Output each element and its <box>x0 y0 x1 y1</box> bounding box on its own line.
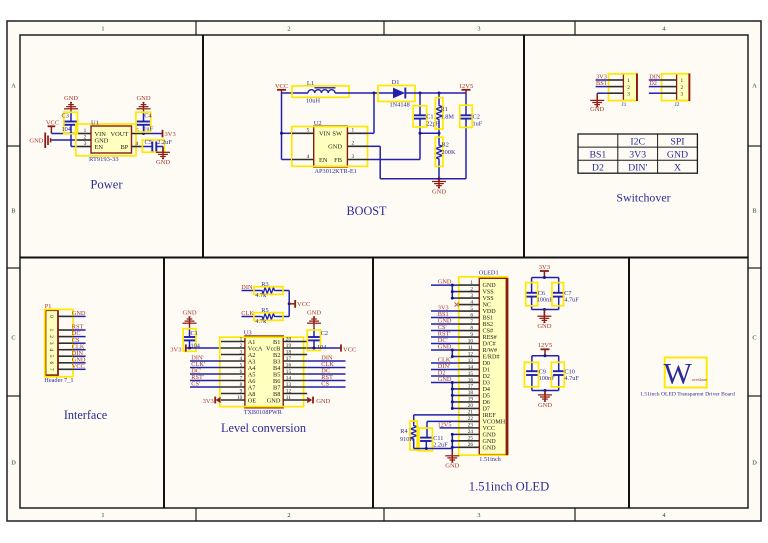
OLED1 pin 15 D2 <box>459 375 480 377</box>
OLED1 pin 23 VCC <box>459 427 480 429</box>
svg-text:X: X <box>674 163 681 174</box>
svg-text:2: 2 <box>240 343 243 349</box>
wire RST from U3 <box>307 380 345 382</box>
ground GND above C4 <box>143 103 145 114</box>
svg-text:VSS: VSS <box>483 296 495 302</box>
OLED1 pin 13 D0 <box>459 362 480 364</box>
op-amp U2 boost converter AP3012 <box>314 126 348 167</box>
svg-text:BS2: BS2 <box>483 322 494 328</box>
svg-text:20: 20 <box>468 403 474 409</box>
resistor R2 200K <box>438 133 440 143</box>
wire GND to OLED1 pin 1 <box>431 284 459 286</box>
capacitor C11 2.2uF <box>420 437 432 439</box>
ground GND below C6/C7 <box>543 312 545 323</box>
svg-text:12: 12 <box>468 351 474 357</box>
svg-text:RT9193-33: RT9193-33 <box>89 156 119 163</box>
svg-text:BS1: BS1 <box>596 80 607 87</box>
wire GND to OLED1 pin 11 <box>431 349 459 351</box>
OLED1 pin4 NC cross <box>455 303 459 307</box>
svg-text:1uF: 1uF <box>473 121 483 128</box>
svg-text:D/C#: D/C# <box>483 342 496 348</box>
svg-text:C4: C4 <box>144 113 152 120</box>
svg-text:3: 3 <box>470 293 473 299</box>
capacitor C10 4.7uF <box>558 356 560 371</box>
svg-text:5: 5 <box>48 355 54 358</box>
wire D2 to J2 pin2 <box>649 86 662 88</box>
svg-text:D: D <box>752 459 757 466</box>
OLED1 pin 26 GND <box>459 446 480 448</box>
wire VOUT to 3V3 <box>144 133 163 135</box>
OLED1 pin 2 VSS <box>459 291 480 293</box>
svg-text:Switchover: Switchover <box>616 190 670 204</box>
svg-text:VCC: VCC <box>46 119 59 126</box>
P1 pin 6 GND <box>58 362 72 364</box>
ground GND below C5 <box>162 148 164 159</box>
svg-text:VDD: VDD <box>483 309 497 315</box>
svg-text:0: 0 <box>48 315 54 318</box>
svg-text:7: 7 <box>48 368 54 371</box>
op-amp U1 regulator RT9193-33 <box>91 126 132 153</box>
wire L1 to D1 anode <box>335 92 393 94</box>
capacitor C7 4.7uF <box>558 278 560 293</box>
svg-text:12: 12 <box>286 389 292 395</box>
svg-text:SW: SW <box>332 131 343 138</box>
svg-text:GND: GND <box>72 310 86 317</box>
power port VCC (VccB) <box>340 344 342 351</box>
svg-text:4.7k: 4.7k <box>255 292 267 299</box>
OLED1 pin 18 D5 <box>459 394 480 396</box>
svg-text:C: C <box>11 334 15 341</box>
OLED1 pin 8 CS# <box>459 330 480 332</box>
svg-text:GND: GND <box>438 279 452 286</box>
svg-text:4.7k: 4.7k <box>255 318 267 325</box>
svg-text:GND: GND <box>64 95 78 102</box>
header J2 <box>677 74 690 101</box>
svg-text:9: 9 <box>240 389 243 395</box>
wire DIN' to OLED1 pin 14 <box>431 368 459 370</box>
svg-text:VCC: VCC <box>483 426 496 432</box>
wire U2 VIN rail <box>281 93 283 160</box>
svg-text:6: 6 <box>48 361 54 364</box>
OLED1 pin 4 NC <box>459 304 480 306</box>
logo Waveshare <box>665 358 707 388</box>
svg-text:21: 21 <box>468 410 474 416</box>
svg-text:C: C <box>752 334 756 341</box>
capacitor C6 100nF <box>531 278 533 293</box>
wire 12V5 to OLED1 VCC pin23 <box>440 427 459 429</box>
svg-text:D2: D2 <box>592 163 604 174</box>
wire 3V3 to J1 pin1 <box>596 79 609 81</box>
svg-text:W: W <box>664 357 693 390</box>
svg-text:BOOST: BOOST <box>347 204 388 218</box>
svg-text:2: 2 <box>351 141 354 147</box>
svg-text:GND: GND <box>438 344 452 351</box>
capacitor C9 100nF <box>531 356 533 371</box>
svg-text:14: 14 <box>286 376 292 382</box>
svg-text:OLED1: OLED1 <box>479 270 499 277</box>
wire C5 to ground <box>156 146 163 148</box>
diode D1 1N4148 <box>378 86 415 102</box>
svg-text:2: 2 <box>48 335 54 338</box>
OLED1 pin 17 D4 <box>459 388 480 390</box>
svg-text:GND: GND <box>483 432 497 438</box>
svg-text:2: 2 <box>287 26 290 33</box>
svg-text:10: 10 <box>237 395 243 401</box>
svg-text:CS#: CS# <box>483 329 494 335</box>
U3 pin 15 B5 <box>283 373 307 375</box>
svg-text:1: 1 <box>680 78 683 84</box>
svg-text:BS1: BS1 <box>483 316 494 322</box>
capacitor C1 104 (level) <box>189 328 191 337</box>
svg-text:17: 17 <box>468 384 474 390</box>
svg-text:Interface: Interface <box>64 408 107 422</box>
svg-text:11: 11 <box>468 345 473 351</box>
svg-text:VCC: VCC <box>275 83 288 90</box>
wire CS' to U3 <box>190 386 221 388</box>
svg-text:EN: EN <box>319 157 328 164</box>
wire VCOMH to C11 <box>427 420 459 422</box>
OLED1 pin 6 BS1 <box>459 317 480 319</box>
svg-text:Level conversion: Level conversion <box>221 421 306 435</box>
svg-text:VOUT: VOUT <box>111 131 129 138</box>
svg-text:3: 3 <box>240 350 243 356</box>
svg-text:VSS: VSS <box>483 290 495 296</box>
wire RST' to U3 <box>190 380 221 382</box>
svg-text:I2C: I2C <box>630 136 645 147</box>
svg-text:1: 1 <box>627 78 630 84</box>
svg-text:EN: EN <box>95 144 104 151</box>
U1 pin 2 GND <box>78 139 91 141</box>
U2 pin 1 SW <box>347 132 367 134</box>
inductor L1 10uH <box>292 86 349 97</box>
svg-text:1: 1 <box>351 128 354 134</box>
svg-text:SPI: SPI <box>670 136 684 147</box>
svg-text:R3: R3 <box>261 281 268 288</box>
wire divider tap <box>420 132 439 134</box>
U1 pin 5 VOUT <box>132 133 144 135</box>
OLED1 pin 21 IREF <box>459 414 480 416</box>
U1 pin 1 VIN <box>78 133 91 135</box>
connector OLED1 <box>479 278 507 454</box>
bus GND pins 1-3 <box>451 285 453 298</box>
svg-text:26: 26 <box>468 442 474 448</box>
wire GND to OLED1 pin 16 <box>431 381 459 383</box>
wire GND pin to rail <box>368 145 381 147</box>
svg-text:10uH: 10uH <box>306 97 320 104</box>
wire D2 to OLED1 pin 15 <box>431 375 459 377</box>
svg-text:Header 7_1: Header 7_1 <box>44 377 73 384</box>
wire boost ground rail <box>380 178 466 180</box>
svg-text:U3: U3 <box>244 330 252 337</box>
svg-text:R4: R4 <box>400 428 408 435</box>
ground GND arrow at U3 pin11 <box>307 397 312 403</box>
wire EN tie to VIN <box>71 146 78 148</box>
svg-text:15: 15 <box>286 369 292 375</box>
svg-text:GND: GND <box>156 159 170 166</box>
U3 pin 7 A6 <box>221 380 245 382</box>
svg-text:20: 20 <box>286 337 292 343</box>
svg-text:GND: GND <box>483 439 497 445</box>
wire pullup rail to VCC <box>288 291 290 317</box>
wire J2 pin3 stub <box>649 92 662 94</box>
U3 pin 5 A4 <box>221 367 245 369</box>
U3 pin 8 A7 <box>221 386 245 388</box>
svg-text:GND: GND <box>445 463 459 470</box>
svg-text:3: 3 <box>680 91 683 97</box>
svg-text:8: 8 <box>240 382 243 388</box>
svg-text:VCC: VCC <box>72 363 85 370</box>
P1 pin 5 DIN <box>58 355 72 357</box>
svg-text:2.2uF: 2.2uF <box>157 139 172 146</box>
svg-text:D2: D2 <box>483 374 490 380</box>
junction C3/VCC node <box>70 132 73 135</box>
svg-text:2: 2 <box>84 134 87 140</box>
svg-text:3: 3 <box>477 512 480 519</box>
table switchover mapping <box>578 134 697 173</box>
OLED1 pin 24 GND <box>459 433 480 435</box>
OLED1 pin 19 D6 <box>459 401 480 403</box>
svg-text:C2: C2 <box>473 113 480 120</box>
wire GND to OLED1 pin 7 <box>431 323 459 325</box>
wire VCC to U1 pin1 <box>51 133 78 135</box>
capacitor group C9/C10 12V5 <box>544 349 546 356</box>
svg-text:P1: P1 <box>45 303 52 310</box>
svg-text:5: 5 <box>307 128 310 134</box>
svg-text:12V5: 12V5 <box>459 83 473 90</box>
wire VCC rail to L1 <box>282 92 309 94</box>
capacitor C1 22pF <box>419 93 421 115</box>
svg-text:4: 4 <box>240 356 243 362</box>
svg-text:1uF: 1uF <box>143 126 153 133</box>
svg-text:GND: GND <box>267 397 281 404</box>
svg-text:E/RD#: E/RD# <box>483 355 500 361</box>
svg-text:VCC: VCC <box>297 301 310 308</box>
wire IREF to R4 <box>414 414 459 416</box>
bus GND pins 24-26 <box>451 434 453 451</box>
svg-text:7: 7 <box>240 376 243 382</box>
power port 3V3 (power block) <box>162 130 164 138</box>
wire 3V3 to VccA <box>186 347 221 349</box>
svg-text:25: 25 <box>468 436 474 442</box>
OLED1 pin 12 E/RD# <box>459 355 480 357</box>
svg-text:1: 1 <box>48 329 54 332</box>
svg-text:22pF: 22pF <box>426 121 439 128</box>
bus GND pins 11-12 <box>451 350 453 356</box>
svg-text:22: 22 <box>468 416 474 422</box>
svg-text:GND: GND <box>432 188 446 195</box>
svg-text:C5: C5 <box>145 139 152 146</box>
header J1 <box>623 74 637 101</box>
capacitor C4 <box>143 113 145 121</box>
svg-text:2: 2 <box>680 85 683 91</box>
U3 pin 1 A1 <box>221 341 245 343</box>
svg-text:CS': CS' <box>191 381 200 388</box>
svg-text:1: 1 <box>101 512 104 519</box>
svg-text:12V5: 12V5 <box>538 342 552 349</box>
svg-text:910K: 910K <box>400 436 414 443</box>
svg-text:4: 4 <box>470 299 473 305</box>
junction C4 node <box>142 132 145 135</box>
wire BS1 to OLED1 pin 6 <box>431 317 459 319</box>
capacitor group C6/C7 3V3 <box>543 271 545 278</box>
svg-text:1.8M: 1.8M <box>441 113 455 120</box>
svg-text:GND: GND <box>182 310 196 317</box>
svg-text:GND: GND <box>307 310 321 317</box>
ground GND above C3 <box>70 103 72 114</box>
U2 pin 3 FB <box>347 159 367 161</box>
svg-text:3: 3 <box>477 26 480 33</box>
svg-text:12V5: 12V5 <box>438 421 452 428</box>
svg-text:13: 13 <box>468 358 474 364</box>
svg-text:C2: C2 <box>321 330 328 337</box>
svg-text:VCOMH: VCOMH <box>483 419 506 425</box>
wire J1 pin3 to ground <box>597 92 609 94</box>
svg-text:2: 2 <box>627 85 630 91</box>
OLED1 pin 5 VDD <box>459 310 480 312</box>
OLED1 pin 7 BS2 <box>459 323 480 325</box>
svg-text:C3: C3 <box>62 113 69 120</box>
svg-text:B: B <box>11 207 15 214</box>
capacitor C5 <box>151 142 153 152</box>
svg-text:A: A <box>752 83 757 90</box>
svg-text:D1: D1 <box>483 368 490 374</box>
svg-text:BS1: BS1 <box>589 149 606 160</box>
svg-text:R1: R1 <box>441 106 448 113</box>
svg-text:3V3: 3V3 <box>165 131 176 138</box>
wire C6/C7 ground rail <box>532 309 559 311</box>
svg-text:5: 5 <box>136 128 139 134</box>
svg-text:1.51inch OLED: 1.51inch OLED <box>469 479 549 493</box>
svg-text:GND: GND <box>136 95 150 102</box>
OLED1 pin 1 GND <box>459 284 480 286</box>
op-amp U3 TXB0108PWR <box>245 336 283 408</box>
svg-text:FB: FB <box>334 157 342 164</box>
header P1 Header7_1 <box>46 310 59 375</box>
svg-text:DIN': DIN' <box>628 163 647 174</box>
svg-text:16: 16 <box>468 377 474 383</box>
svg-text:A: A <box>11 83 16 90</box>
U3 pin 9 A8 <box>221 393 245 395</box>
svg-text:1: 1 <box>101 26 104 33</box>
svg-text:GND: GND <box>483 445 497 451</box>
svg-text:C1: C1 <box>426 113 433 120</box>
wire DIN to J2 pin1 <box>649 79 662 81</box>
OLED1 pin 20 D7 <box>459 407 480 409</box>
svg-text:aveshare: aveshare <box>692 377 707 382</box>
svg-text:OE: OE <box>248 397 257 404</box>
svg-text:5: 5 <box>470 306 473 312</box>
wire R4/C11 ground return <box>414 448 453 450</box>
svg-text:B: B <box>752 207 756 214</box>
svg-text:8: 8 <box>470 325 473 331</box>
svg-text:3: 3 <box>627 91 630 97</box>
U2 pin 2 GND <box>347 145 367 147</box>
svg-text:3V3: 3V3 <box>170 346 181 353</box>
svg-text:6: 6 <box>470 312 473 318</box>
U2 pin 5 VIN <box>292 132 314 134</box>
svg-text:D5: D5 <box>483 394 490 400</box>
U2 pin 4 EN <box>292 159 314 161</box>
zone row ticks <box>7 145 20 147</box>
svg-text:1: 1 <box>470 280 473 286</box>
svg-text:GND: GND <box>316 398 330 405</box>
wire BP to C5 <box>142 146 153 148</box>
svg-text:AP3012KTR-E1: AP3012KTR-E1 <box>315 168 357 175</box>
svg-text:IREF: IREF <box>483 413 497 419</box>
svg-text:C1: C1 <box>191 330 198 337</box>
svg-text:D3: D3 <box>483 381 490 387</box>
wire CLK' to OLED1 pin 13 <box>431 362 459 364</box>
svg-text:U2: U2 <box>314 120 322 127</box>
svg-text:R/W#: R/W# <box>483 348 498 354</box>
svg-text:R2: R2 <box>442 142 449 149</box>
svg-text:GND: GND <box>537 323 551 330</box>
svg-text:D7: D7 <box>483 407 490 413</box>
svg-text:4.7uF: 4.7uF <box>564 375 579 382</box>
bus GND pins 16-20 <box>451 382 453 408</box>
block divider horizontal <box>20 257 748 259</box>
wire DC' to U3 <box>190 373 221 375</box>
svg-text:1: 1 <box>84 128 87 134</box>
svg-text:D1: D1 <box>392 79 400 86</box>
OLED1 pin 14 D1 <box>459 368 480 370</box>
svg-text:17: 17 <box>286 356 292 362</box>
svg-text:D4: D4 <box>483 387 490 393</box>
wire DC' to OLED1 pin 10 <box>431 343 459 345</box>
ground GND above C2 (level) <box>313 317 315 328</box>
OLED1 pin 22 VCOMH <box>459 420 480 422</box>
svg-text:9: 9 <box>470 332 473 338</box>
svg-text:R5: R5 <box>261 307 268 314</box>
U3 pin 14 B6 <box>283 380 307 382</box>
wire DC from U3 <box>307 373 345 375</box>
wire C9/C10 ground rail <box>532 390 559 392</box>
svg-text:GND: GND <box>483 283 497 289</box>
U3 pin 18 B2 <box>283 354 307 356</box>
svg-text:6: 6 <box>240 369 243 375</box>
U3 pin 12 B8 <box>283 393 307 395</box>
wire DIN' to U3 <box>190 360 221 362</box>
block divider OLED/logo <box>628 258 630 509</box>
svg-text:16: 16 <box>286 363 292 369</box>
svg-text:7: 7 <box>470 319 473 325</box>
svg-text:11: 11 <box>286 395 291 401</box>
wire 3V3 to OLED1 pin 5 <box>431 310 459 312</box>
block divider Power/BOOST <box>202 35 204 258</box>
svg-text:19: 19 <box>468 397 474 403</box>
svg-text:VIN: VIN <box>319 131 331 138</box>
P1 pin 0 GND <box>58 315 72 317</box>
U3 pin 19 VccB <box>283 347 307 349</box>
U3 pin 13 B7 <box>283 386 307 388</box>
svg-text:D0: D0 <box>483 361 490 367</box>
wire VccB to VCC <box>307 347 341 349</box>
U3 pin 16 B4 <box>283 367 307 369</box>
resistor R1 1.8M <box>438 93 440 104</box>
wire FB to divider <box>368 159 421 161</box>
svg-text:1.51inch OLED Transparent Driv: 1.51inch OLED Transparent Driver Board <box>640 392 735 398</box>
resistor R4 910K <box>411 424 417 441</box>
svg-text:18: 18 <box>468 390 474 396</box>
svg-text:3: 3 <box>84 141 87 147</box>
P1 pin 4 CLK <box>58 349 72 351</box>
svg-text:VCC: VCC <box>343 346 356 353</box>
P1 pin 1 RST <box>58 329 72 331</box>
svg-text:GND: GND <box>438 376 452 383</box>
OLED1 pin 9 RES# <box>459 336 480 338</box>
OLED1 pin 3 VSS <box>459 297 480 299</box>
svg-text:J1: J1 <box>622 102 627 108</box>
